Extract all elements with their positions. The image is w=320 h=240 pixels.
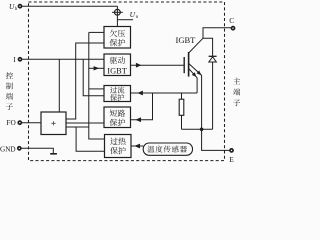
wire: I branch down to OR box bbox=[58, 59, 60, 112]
node: voltage regulator circle-plus symbol bbox=[115, 9, 121, 15]
terminal GND bbox=[18, 147, 21, 150]
side label 控制端子 bbox=[6, 72, 13, 79]
IGBT collector lead bbox=[189, 38, 203, 53]
wire: Uo output stub bbox=[117, 19, 133, 21]
wire: vertical bus V1 from UV to OT bbox=[89, 32, 105, 139]
block: fault OR logic bbox=[41, 112, 66, 135]
terminal E bbox=[230, 149, 233, 152]
svg-text:E: E bbox=[229, 155, 234, 164]
block: undervoltage protection 欠压保护 bbox=[104, 27, 131, 49]
wire: Uh supply from terminal to regulator and UV block bbox=[20, 5, 117, 7]
wire: OR box to OT lower input bbox=[66, 126, 89, 128]
wire: branch to diode cathode bbox=[203, 38, 213, 56]
wire: branch into SC block bbox=[131, 93, 153, 120]
wire: OR box to SC block bbox=[66, 122, 104, 124]
wire: branch to OC input 2 bbox=[83, 59, 104, 95]
wire: temperature sensor to OT block bbox=[131, 145, 143, 147]
block: overcurrent protection 过流保护 bbox=[104, 86, 131, 102]
svg-text:IGBT: IGBT bbox=[176, 35, 197, 45]
svg-text:C: C bbox=[229, 16, 234, 25]
temperature sensor 温度传感器 bbox=[143, 143, 192, 155]
svg-text:GND: GND bbox=[0, 145, 16, 153]
junction node bbox=[200, 128, 204, 132]
IGBT sense emitter with arrow bbox=[189, 68, 198, 93]
svg-text:IGBT: IGBT bbox=[107, 67, 127, 76]
wire: sense emitter rail into OC block bbox=[131, 92, 198, 94]
terminal I bbox=[18, 58, 21, 61]
ground symbol bbox=[50, 153, 57, 155]
wire: emitter bottom link bbox=[182, 128, 213, 130]
terminal Uh bbox=[18, 5, 21, 8]
IGBT gate bar bbox=[183, 57, 185, 73]
wire: gate drive to IGBT bbox=[131, 64, 185, 66]
IGBT body bar bbox=[188, 52, 190, 77]
wire: input I to drive block bbox=[20, 58, 104, 60]
terminal FO bbox=[18, 121, 21, 124]
block: overheat protection 过热保护 bbox=[105, 135, 132, 158]
wire: collector rail to C terminal bbox=[203, 28, 233, 39]
side label 主端子 (clipped) bbox=[233, 78, 240, 85]
module dashed boundary bbox=[29, 2, 225, 161]
block: short-circuit protection 短路保护 bbox=[104, 107, 131, 128]
terminal C bbox=[231, 27, 234, 30]
wire: OR box to UV input 2 bbox=[66, 43, 104, 119]
block: drive IGBT 驱动IGBT bbox=[104, 54, 131, 76]
wire: GND bbox=[19, 148, 53, 153]
svg-text:FO: FO bbox=[6, 118, 15, 127]
IGBT main emitter with arrow bbox=[189, 63, 202, 129]
wire: arrowed stub into drive block bbox=[89, 67, 104, 69]
wire: to E terminal bbox=[202, 129, 232, 150]
wire: FO output bbox=[20, 122, 41, 124]
svg-text:U: U bbox=[130, 10, 136, 19]
sense resistor bbox=[181, 93, 183, 99]
freewheel diode bbox=[209, 55, 217, 57]
